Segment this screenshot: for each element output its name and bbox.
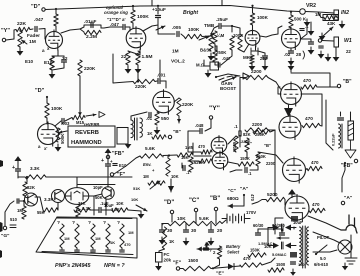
ground	[210, 238, 212, 241]
capacitor 60b	[280, 233, 285, 235]
ground	[185, 238, 187, 241]
svg-text:"F": "F"	[117, 172, 126, 178]
capacitor w	[319, 46, 323, 48]
capacitor input ch2	[200, 129, 202, 134]
svg-text:1M: 1M	[64, 236, 70, 241]
wire	[157, 6, 159, 14]
wire B+ bus	[46, 6, 300, 12]
wire	[63, 56, 65, 59]
wire	[77, 185, 115, 188]
wire	[284, 200, 286, 206]
resistor array 1	[75, 224, 79, 248]
svg-text:1.5M: 1.5M	[142, 54, 153, 60]
svg-text:"D": "D"	[35, 88, 45, 94]
resistor 500K	[56, 128, 60, 142]
capacitor electrolytic	[16, 169, 21, 171]
svg-text:.047: .047	[110, 22, 119, 27]
wire	[25, 196, 28, 198]
wire	[258, 228, 282, 230]
svg-text:"C": "C"	[189, 197, 199, 204]
wire	[159, 60, 161, 80]
cathode loop V3	[251, 48, 258, 55]
wire	[55, 26, 57, 31]
capacitor 10uF	[156, 16, 161, 18]
terminal F2	[176, 267, 179, 270]
wire	[39, 29, 45, 40]
terminal C3	[194, 208, 197, 211]
svg-text:5200: 5200	[267, 192, 278, 198]
wire	[215, 62, 217, 65]
ground	[127, 141, 129, 144]
svg-text:"B": "B"	[264, 143, 271, 148]
svg-text:620K: 620K	[194, 160, 204, 165]
svg-text:"E": "E"	[216, 271, 225, 276]
wire bus ss	[46, 176, 132, 178]
junction	[55, 8, 57, 10]
wire array top	[57, 217, 132, 220]
svg-text:REVERB: REVERB	[75, 130, 99, 136]
ground b	[310, 47, 312, 50]
tube V8b output third	[283, 157, 306, 184]
edge mark 2	[0, 222, 3, 232]
resistor 220K h	[133, 79, 155, 83]
svg-text:100K: 100K	[137, 14, 149, 20]
wire	[268, 78, 281, 90]
junction	[132, 5, 134, 7]
edge mark 3	[0, 250, 2, 258]
capacitor .1 V4	[300, 29, 304, 31]
svg-text:100K: 100K	[188, 27, 200, 33]
ground	[127, 66, 129, 69]
svg-text:orange ring: orange ring	[104, 10, 128, 15]
junction	[215, 76, 217, 78]
ground triangle V7	[284, 108, 293, 117]
wire	[240, 44, 249, 52]
terminal B	[168, 135, 171, 138]
capacitor .047 ts	[218, 63, 220, 67]
capacitor 510	[10, 225, 16, 228]
resistor 100K reverb	[45, 103, 49, 118]
switch power	[316, 245, 327, 254]
resistor env 1M	[148, 181, 165, 185]
wire	[165, 81, 167, 88]
supply arrow	[17, 161, 19, 164]
capacitor array 1	[75, 250, 79, 252]
resistor 250K	[213, 50, 217, 62]
wire	[288, 105, 290, 108]
wire	[113, 54, 133, 83]
svg-text:?: ?	[72, 220, 75, 226]
tube V9 channel-2 triode A	[211, 135, 227, 155]
wire	[320, 125, 322, 128]
wire	[174, 98, 179, 102]
wire	[281, 229, 283, 232]
svg-text:.25uF: .25uF	[216, 17, 228, 22]
wire	[194, 155, 211, 157]
resistor 3.3K	[25, 175, 46, 179]
svg-text:?: ?	[103, 220, 106, 226]
svg-text:43K: 43K	[327, 21, 336, 26]
junction E	[212, 267, 214, 269]
resistor 100K plate V2	[131, 10, 135, 23]
resistor 82K	[245, 138, 249, 152]
wire	[318, 12, 334, 13]
wire	[161, 80, 166, 82]
arrow battery	[197, 248, 222, 250]
wire	[161, 224, 163, 230]
terminal Y2	[209, 116, 212, 119]
svg-text:10K: 10K	[177, 216, 186, 222]
resistor 31K	[74, 208, 90, 212]
ground IN2	[341, 21, 343, 24]
resistor reverb feed	[72, 115, 85, 119]
wire	[88, 196, 94, 215]
wire stub	[151, 0, 153, 6]
wire	[205, 243, 207, 247]
tube V2	[126, 26, 146, 50]
wire PT core	[302, 226, 304, 268]
capacitor 20	[209, 230, 214, 232]
AC plug	[341, 215, 357, 233]
wire	[92, 248, 94, 249]
wire	[228, 136, 236, 144]
svg-text:"B": "B"	[173, 129, 181, 135]
arrow winding	[277, 237, 289, 239]
svg-text:1M: 1M	[128, 230, 134, 235]
svg-text:470: 470	[198, 144, 206, 149]
svg-text:1M: 1M	[95, 236, 101, 241]
wire	[110, 26, 122, 28]
wire	[80, 29, 84, 32]
wire	[290, 48, 292, 50]
svg-text:"D": "D"	[31, 4, 41, 10]
wire	[215, 211, 217, 224]
svg-text:E10: E10	[25, 59, 34, 64]
capacitor array 3	[106, 250, 110, 252]
box REVERB HAMMOND	[68, 126, 115, 147]
wire	[306, 11, 319, 14]
box filter	[291, 216, 298, 222]
resistor 43K	[324, 15, 337, 19]
wire coupling wavy	[260, 26, 282, 37]
wire	[202, 35, 211, 38]
potentiometer VR2	[300, 9, 306, 15]
resistor MK2	[250, 55, 254, 64]
wire cord	[308, 216, 341, 230]
resistor array 4	[120, 224, 124, 248]
svg-text:10K: 10K	[116, 201, 124, 206]
resistor 5200	[266, 197, 285, 201]
wire	[204, 60, 210, 66]
wire	[246, 152, 248, 158]
svg-text:30: 30	[167, 228, 173, 234]
svg-text:2.2M: 2.2M	[86, 34, 97, 40]
wire	[94, 194, 102, 196]
svg-text:?: ?	[88, 220, 91, 226]
resistor 22K	[16, 27, 30, 31]
wire	[222, 26, 232, 32]
pilot lamp	[338, 240, 352, 254]
svg-text:510: 510	[10, 217, 18, 222]
capacitor .047	[35, 27, 37, 32]
svg-text:500 K: 500 K	[294, 17, 307, 22]
svg-text:Bright: Bright	[183, 10, 198, 16]
potentiometer Fader 1M	[18, 31, 22, 47]
svg-text:1500: 1500	[276, 262, 286, 267]
LTP internals	[66, 191, 88, 200]
wire plate V2	[143, 25, 158, 31]
ground	[161, 237, 163, 240]
ground	[251, 63, 253, 66]
svg-text:6/6-610: 6/6-610	[314, 262, 329, 267]
tube V11	[285, 194, 309, 222]
svg-text:1M: 1M	[172, 49, 179, 55]
resistor 100K	[184, 34, 202, 38]
box bass pot	[210, 62, 219, 70]
supply arrow small	[206, 246, 208, 249]
svg-text:"FB": "FB"	[112, 151, 125, 157]
ground	[310, 28, 312, 31]
wire	[52, 63, 64, 70]
svg-text:2200: 2200	[266, 161, 276, 166]
ground	[344, 263, 346, 266]
wire	[211, 267, 228, 269]
wire	[205, 119, 211, 131]
wire	[26, 177, 28, 182]
capacitor 0.22uF	[338, 118, 344, 120]
ground	[292, 269, 294, 272]
jack W1	[334, 37, 339, 47]
svg-text:28: 28	[296, 52, 302, 57]
supply arrow 2	[107, 153, 109, 156]
resistor 550	[155, 112, 159, 125]
wire	[5, 201, 14, 226]
resistor 500K	[289, 15, 293, 28]
svg-text:1K: 1K	[110, 240, 115, 245]
resistor array 0	[60, 224, 64, 248]
capacitor 22 V3	[263, 56, 268, 58]
wire	[52, 55, 58, 57]
svg-text:B&S1: B&S1	[200, 48, 212, 53]
winding reverb transformer	[140, 118, 142, 137]
svg-text:170V: 170V	[246, 210, 256, 215]
resistor 15K	[177, 153, 193, 157]
wire OT core	[341, 124, 343, 148]
terminal node D	[42, 8, 45, 11]
resistor 680K	[234, 136, 238, 152]
svg-text:470: 470	[124, 242, 131, 247]
svg-text:470: 470	[305, 116, 313, 122]
ground arrow big	[170, 179, 172, 192]
svg-text:82K: 82K	[243, 132, 251, 137]
junction	[315, 253, 317, 255]
wire	[211, 26, 218, 34]
svg-text:≠22: ≠22	[260, 56, 268, 61]
wire long vertical	[274, 130, 276, 196]
capacitor .001	[158, 79, 160, 84]
wire PT core2	[304, 226, 306, 268]
wire	[162, 223, 168, 225]
wire	[318, 12, 323, 18]
resistor 1K d	[162, 227, 166, 249]
resistor 620K v	[189, 157, 193, 172]
resistor array 2	[91, 224, 95, 248]
terminal A	[341, 201, 344, 204]
wire	[102, 209, 112, 211]
svg-text:"F": "F"	[173, 261, 182, 267]
resistor slope	[230, 36, 234, 50]
wire	[114, 156, 140, 174]
wire	[258, 152, 283, 163]
svg-text:2200: 2200	[251, 69, 262, 75]
ground arrow	[178, 116, 180, 123]
svg-text:.01uF: .01uF	[84, 19, 97, 25]
wire	[230, 170, 242, 172]
wire	[181, 34, 184, 37]
wire	[35, 197, 43, 210]
wire	[185, 224, 187, 230]
svg-text:.048: .048	[195, 123, 204, 128]
svg-text:1M: 1M	[29, 39, 36, 45]
capacitor .005	[177, 32, 179, 37]
resistor 1/4M treble	[213, 31, 217, 44]
switch dashes	[219, 76, 239, 80]
ground	[335, 54, 337, 57]
svg-text:0.22uF: 0.22uF	[331, 133, 336, 146]
capacitor 30b	[184, 230, 189, 232]
svg-text:50K: 50K	[95, 195, 103, 200]
svg-text:22: 22	[62, 56, 68, 62]
pot arrow env	[150, 181, 160, 189]
svg-text:Env.: Env.	[143, 162, 152, 167]
wire	[188, 160, 199, 162]
capacitor array 0	[60, 250, 64, 252]
capacitor .047 second	[123, 25, 125, 30]
junction FB	[344, 162, 346, 164]
capacitor PS	[291, 262, 296, 264]
junction	[157, 5, 159, 7]
wire	[58, 55, 64, 57]
junction	[168, 154, 170, 156]
ground	[320, 51, 322, 54]
resistor 470 g	[240, 263, 262, 267]
capacitor .25uF	[219, 24, 221, 29]
capacitor .003	[62, 119, 64, 124]
diode D1	[228, 264, 234, 270]
wire	[250, 166, 258, 170]
resistor plate V3	[250, 13, 254, 25]
terminal G	[3, 226, 6, 229]
supply arrow up	[291, 195, 293, 198]
resistor 3.3K b	[43, 208, 58, 212]
svg-text:?: ?	[117, 220, 120, 226]
capacitor .02	[289, 51, 294, 53]
terminal FB2x	[354, 159, 357, 162]
svg-text:680Ω: 680Ω	[227, 196, 239, 202]
resistor 150K c	[248, 253, 266, 257]
svg-text:1K: 1K	[147, 131, 153, 136]
svg-text:1M: 1M	[143, 174, 149, 179]
terminal F	[110, 173, 113, 176]
svg-text:?: ?	[57, 220, 60, 226]
tube V4	[282, 27, 301, 50]
svg-text:1M5: 1M5	[185, 145, 194, 150]
svg-text:PNP's 2N4945: PNP's 2N4945	[55, 263, 91, 269]
ground	[290, 63, 292, 66]
capacitor env	[183, 166, 185, 171]
wire	[245, 218, 250, 220]
wire	[163, 155, 177, 157]
wire	[188, 131, 199, 152]
wire	[255, 46, 257, 50]
svg-text:150K: 150K	[250, 248, 260, 253]
wire	[79, 76, 81, 108]
svg-text:500K: 500K	[60, 133, 65, 144]
svg-text:HAMMOND: HAMMOND	[71, 140, 102, 146]
wire	[252, 6, 254, 13]
svg-text:BOOST: BOOST	[220, 86, 236, 91]
capacitor .1uF	[99, 208, 101, 213]
wire	[290, 64, 292, 72]
resistor 470 grid V7	[301, 85, 317, 89]
resistor 1500 ps	[268, 268, 284, 272]
svg-text:60/30: 60/30	[253, 223, 264, 228]
wire	[290, 12, 292, 15]
svg-text:100: 100	[298, 262, 305, 267]
svg-text:5.6K: 5.6K	[199, 216, 210, 222]
junction	[251, 5, 253, 7]
wire stub 2	[221, 0, 223, 6]
svg-text:31K: 31K	[78, 201, 86, 206]
tube V3	[245, 28, 260, 47]
wire	[322, 40, 334, 43]
svg-text:NPN = ?: NPN = ?	[104, 263, 125, 269]
box reverb jack	[117, 128, 128, 145]
wire	[107, 248, 109, 249]
diode rectifier pair 1	[273, 225, 279, 231]
resistor 220K plate	[177, 98, 181, 116]
wire	[326, 100, 333, 150]
resistor 470 grid	[201, 150, 212, 154]
wire	[262, 258, 275, 265]
svg-text:5.6K: 5.6K	[145, 146, 156, 152]
svg-text:470: 470	[311, 160, 319, 165]
resistor 100K mid	[238, 34, 242, 50]
wire	[55, 9, 57, 14]
wire	[213, 259, 220, 268]
wire	[90, 209, 98, 211]
svg-text:"A": "A"	[344, 195, 353, 201]
ground	[321, 33, 323, 36]
resistor 5.6K b	[196, 221, 222, 225]
wire	[257, 229, 259, 232]
svg-text:.001: .001	[157, 73, 166, 78]
wire	[278, 87, 281, 94]
wire	[17, 164, 19, 168]
svg-text:2200: 2200	[252, 122, 263, 127]
svg-text:100K: 100K	[51, 106, 63, 112]
wire	[171, 214, 173, 222]
wire	[20, 201, 24, 206]
brace 28	[303, 51, 305, 59]
transistor Q1	[25, 193, 38, 206]
svg-text:"B": "B"	[343, 79, 352, 85]
switch arrow	[222, 77, 236, 82]
wire	[158, 25, 175, 34]
transistor Q1b	[52, 190, 65, 203]
resistor plate load V1	[54, 14, 58, 26]
wire	[252, 25, 254, 31]
